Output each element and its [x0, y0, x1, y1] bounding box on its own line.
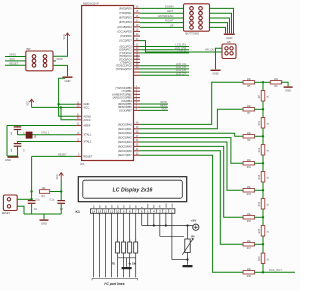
svg-text:LC Display 2x16: LC Display 2x16	[113, 187, 153, 193]
svg-text:0.1u: 0.1u	[50, 198, 55, 201]
svg-text:R12: R12	[259, 147, 261, 152]
svg-text:IC1: IC1	[80, 162, 85, 166]
svg-text:(ADC3)PA3: (ADC3)PA3	[118, 136, 132, 140]
svg-text:I²C port lines: I²C port lines	[104, 282, 124, 286]
svg-text:(SCK)PB7: (SCK)PB7	[119, 108, 132, 112]
svg-text:(OC1B)PD4: (OC1B)PD4	[117, 25, 132, 29]
svg-text:R19: R19	[247, 276, 252, 278]
svg-text:VSS: VSS	[172, 203, 174, 208]
svg-text:10: 10	[116, 209, 120, 213]
svg-text:RESET: RESET	[2, 212, 11, 215]
svg-text:GND: GND	[5, 158, 11, 162]
svg-text:R13: R13	[247, 194, 252, 196]
svg-text:DOWN: DOWN	[165, 4, 174, 8]
svg-text:RESET: RESET	[83, 154, 92, 158]
svg-text:(ADC6)PA6: (ADC6)PA6	[118, 149, 132, 153]
svg-text:(ADC0)PA0: (ADC0)PA0	[118, 122, 132, 126]
svg-text:VCC: VCC	[27, 100, 30, 105]
svg-text:HR_OUT: HR_OUT	[205, 47, 216, 51]
svg-text:BUTTONS: BUTTONS	[186, 32, 199, 36]
svg-text:GND: GND	[212, 72, 218, 76]
svg-text:(ADC1)PA1: (ADC1)PA1	[118, 127, 132, 131]
svg-text:XTAL2: XTAL2	[83, 140, 92, 144]
svg-text:GND: GND	[41, 222, 47, 226]
svg-text:RS: RS	[154, 204, 156, 208]
svg-text:(ADC2)PA2: (ADC2)PA2	[118, 131, 132, 135]
svg-text:UP: UP	[170, 23, 174, 27]
svg-text:8M: 8M	[35, 135, 37, 138]
svg-text:R18: R18	[259, 256, 261, 261]
svg-text:R10: R10	[259, 120, 261, 125]
svg-text:11: 11	[110, 209, 113, 213]
svg-text:SCK: SCK	[10, 57, 16, 61]
svg-text:(ADC7)PA7: (ADC7)PA7	[118, 153, 132, 157]
svg-text:VCC: VCC	[83, 105, 89, 109]
svg-text:MOSI: MOSI	[57, 58, 64, 61]
svg-text:R4: R4	[191, 235, 195, 239]
svg-text:(INT1)PD3: (INT1)PD3	[119, 20, 132, 24]
svg-text:ENTER/ESC: ENTER/ESC	[158, 14, 173, 18]
svg-text:SCK: SCK	[162, 107, 168, 111]
svg-text:MISO: MISO	[10, 53, 17, 57]
svg-text:LCD_E: LCD_E	[177, 49, 186, 53]
svg-text:AREF: AREF	[83, 124, 91, 128]
svg-text:LEFT: LEFT	[167, 9, 174, 13]
svg-text:13: 13	[98, 209, 102, 213]
svg-text:1nF: 1nF	[11, 148, 13, 152]
svg-text:VCC: VCC	[63, 34, 66, 39]
svg-text:14: 14	[92, 209, 96, 213]
svg-text:+5V: +5V	[191, 218, 196, 222]
svg-text:GND: GND	[285, 89, 291, 93]
svg-text:(TOSC2)PC7: (TOSC2)PC7	[116, 67, 132, 71]
svg-text:VDD: VDD	[166, 203, 168, 208]
svg-text:VCC: VCC	[56, 174, 59, 179]
svg-text:ISP: ISP	[26, 47, 31, 51]
svg-text:AVCC: AVCC	[83, 118, 90, 122]
svg-text:RESET: RESET	[10, 61, 19, 65]
svg-text:XTAL1: XTAL1	[83, 133, 92, 137]
svg-text:(INT0)PD2: (INT0)PD2	[119, 16, 132, 20]
svg-text:1nF: 1nF	[11, 131, 13, 135]
svg-text:RIGHT: RIGHT	[165, 19, 174, 23]
svg-text:XTAL 1: XTAL 1	[41, 131, 50, 135]
svg-text:K1: K1	[76, 210, 80, 214]
svg-text:12: 12	[104, 209, 108, 213]
svg-text:(ADC5)PA5: (ADC5)PA5	[118, 144, 132, 148]
svg-text:AGND: AGND	[83, 114, 91, 118]
svg-text:(OC1A)PD5: (OC1A)PD5	[117, 29, 132, 33]
svg-text:H5: H5	[227, 40, 231, 44]
svg-text:(OC2)PD7: (OC2)PD7	[119, 39, 132, 43]
svg-text:RESET: RESET	[58, 153, 67, 157]
svg-text:(RXD)PD0: (RXD)PD0	[119, 6, 132, 10]
svg-text:GND: GND	[65, 79, 71, 83]
svg-text:(TXD)PD1: (TXD)PD1	[119, 11, 132, 15]
svg-text:0.1u: 0.1u	[35, 198, 40, 201]
svg-text:MEGA32-P: MEGA32-P	[83, 1, 99, 5]
svg-text:R11: R11	[247, 167, 252, 169]
svg-text:VO: VO	[160, 205, 162, 208]
svg-text:DAC_OUT: DAC_OUT	[269, 268, 282, 272]
svg-text:R14: R14	[259, 174, 261, 179]
svg-text:(ICP)PD6: (ICP)PD6	[120, 34, 132, 38]
svg-text:(ADC4)PA4: (ADC4)PA4	[118, 140, 132, 144]
svg-text:R15: R15	[247, 221, 252, 223]
svg-text:R16: R16	[259, 201, 261, 206]
svg-text:LCD_D7: LCD_D7	[176, 71, 187, 75]
svg-text:R18: R18	[259, 228, 261, 233]
svg-text:4x 10k: 4x 10k	[129, 262, 137, 265]
svg-text:R17: R17	[247, 248, 252, 250]
